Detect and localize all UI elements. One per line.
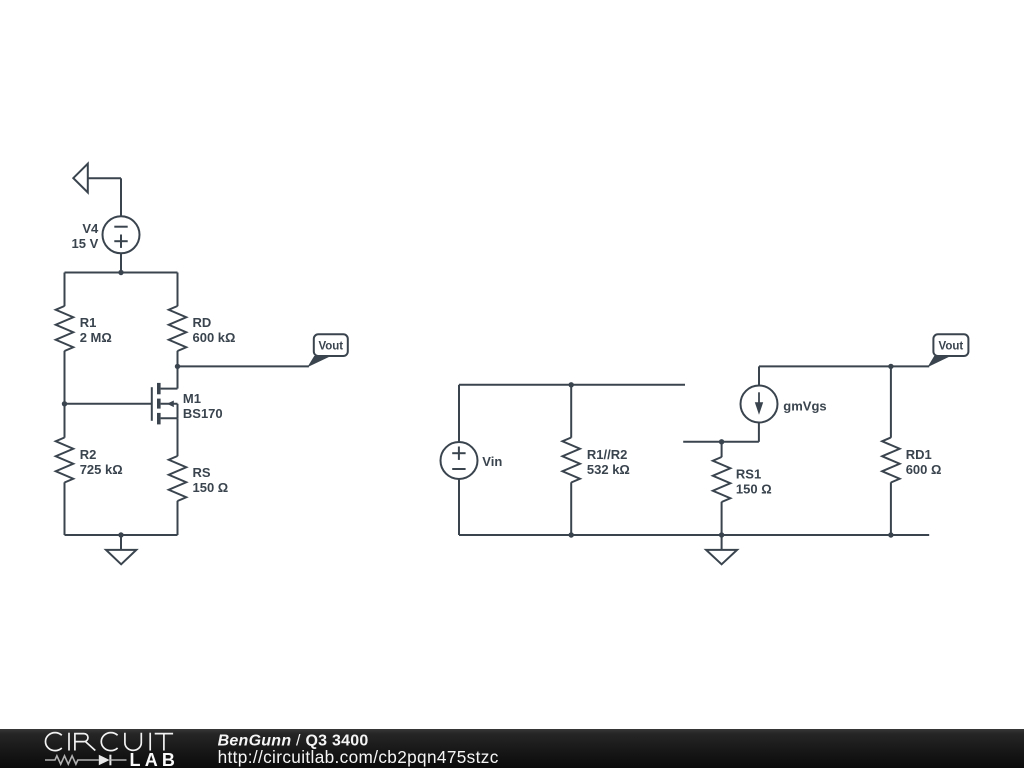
junction bottom bus / ground — [118, 532, 123, 537]
svg-text:Vout: Vout — [318, 341, 343, 353]
svg-text:LAB: LAB — [130, 750, 180, 768]
svg-text:R2: R2 — [80, 447, 97, 462]
junction bottom bus / R1R2 — [569, 532, 574, 537]
svg-text:gmVgs: gmVgs — [783, 399, 826, 414]
net flag Vout (left) — [307, 334, 348, 367]
svg-text:http://circuitlab.com/cb2pqn47: http://circuitlab.com/cb2pqn475stzc — [218, 747, 499, 767]
resistor RD — [169, 273, 187, 367]
svg-text:R1: R1 — [80, 315, 97, 330]
wire bottom bus (left circuit) — [65, 534, 178, 536]
resistor RD1 — [882, 366, 900, 535]
junction source node / RS1 — [719, 439, 724, 444]
transistor M1 (NMOS BS170) — [152, 366, 178, 424]
junction bottom bus / RS1 ground — [719, 532, 724, 537]
junction gate bus / R1R2 — [569, 382, 574, 387]
svg-text:RD1: RD1 — [906, 447, 932, 462]
svg-text:15 V: 15 V — [72, 236, 99, 251]
svg-text:725 kΩ: 725 kΩ — [80, 462, 123, 477]
svg-text:600 Ω: 600 Ω — [906, 462, 942, 477]
wire V4 to top bus — [120, 253, 122, 272]
resistor R2 — [56, 404, 74, 535]
svg-text:Vin: Vin — [482, 454, 502, 469]
wire gmVgs to drain node — [758, 366, 760, 385]
junction drain node / RD1 — [888, 364, 893, 369]
resistor R1//R2 — [562, 385, 580, 535]
junction drain node (left) — [175, 364, 180, 369]
voltage source V4 — [103, 216, 140, 253]
resistor RS1 — [713, 442, 731, 535]
wire bottom bus (right circuit) — [459, 534, 929, 536]
svg-text:2 MΩ: 2 MΩ — [80, 330, 112, 345]
svg-text:150 Ω: 150 Ω — [193, 480, 229, 495]
svg-text:532 kΩ: 532 kΩ — [587, 462, 630, 477]
wire drain node to Vout (right) — [759, 365, 929, 367]
CircuitLab logo: CIRCUIT wordmark — [45, 733, 173, 751]
wire source node (right circuit) — [683, 423, 759, 442]
wire gate bus (right circuit) — [459, 384, 685, 386]
junction gate node / R1 R2 rail — [62, 401, 67, 406]
net flag (supply) on V4 top — [73, 164, 121, 217]
wire top bus (left circuit) — [65, 272, 178, 274]
junction top bus / V4 — [118, 270, 123, 275]
resistor R1 — [56, 273, 74, 404]
wire gate node (left rail to gate) — [65, 403, 152, 405]
voltage source Vin — [441, 442, 478, 479]
wire Vin to gate bus — [458, 385, 460, 442]
svg-text:RS1: RS1 — [736, 467, 761, 482]
net flag Vout (right) — [927, 334, 968, 367]
resistor RS — [169, 418, 187, 535]
CircuitLab logo: resistor squiggle — [45, 756, 99, 764]
current source gmVgs — [741, 386, 778, 423]
svg-text:V4: V4 — [82, 221, 99, 236]
wire drain node to Vout (left) — [178, 365, 309, 367]
CircuitLab logo: diode — [99, 755, 127, 766]
junction bottom bus / RD1 — [888, 532, 893, 537]
svg-text:R1//R2: R1//R2 — [587, 447, 627, 462]
ground (right circuit) — [706, 535, 737, 564]
svg-text:600 kΩ: 600 kΩ — [193, 330, 236, 345]
footer bar — [0, 729, 1024, 768]
svg-text:M1: M1 — [183, 391, 201, 406]
svg-text:RS: RS — [193, 465, 211, 480]
ground (left circuit) — [106, 535, 136, 564]
svg-text:RD: RD — [193, 315, 212, 330]
svg-text:BS170: BS170 — [183, 406, 223, 421]
svg-text:150 Ω: 150 Ω — [736, 482, 772, 497]
wire Vin to bottom bus — [458, 479, 460, 535]
svg-text:Vout: Vout — [939, 341, 964, 353]
